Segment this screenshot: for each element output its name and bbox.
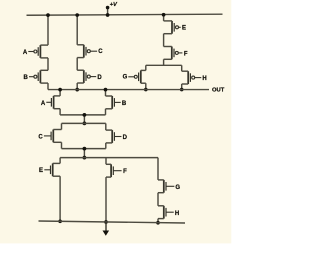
transistor E (NMOS) — [39, 163, 60, 176]
transistor E (PMOS) — [164, 21, 186, 34]
transistor B (PMOS) — [24, 70, 48, 83]
ground rail — [39, 221, 186, 223]
schematic background — [0, 0, 231, 243]
wire G to OUT — [145, 83, 147, 89]
wire D(n) top — [105, 123, 107, 130]
junction dot connector1 top — [83, 113, 87, 117]
junction dot rail/E column — [162, 13, 166, 17]
wire D(n) bottom — [105, 143, 107, 149]
wire C to D — [76, 58, 78, 71]
wire rail to E — [163, 15, 165, 21]
transistor G (NMOS) — [158, 180, 180, 193]
junction dot E(n)/rail — [58, 219, 62, 223]
wire F(n) to ground rail — [105, 177, 107, 222]
transistor D (PMOS) — [77, 70, 102, 83]
transistor F (PMOS) — [164, 47, 188, 60]
node OUT line — [48, 89, 209, 91]
wire A/B pair to C/D pair — [83, 115, 85, 124]
svg-text:H: H — [202, 76, 206, 82]
junction dot rail/A column — [46, 13, 50, 17]
junction dot connector1 bottom — [83, 122, 87, 126]
wire C(n) top — [61, 123, 63, 129]
node line C/D pair top — [62, 122, 106, 124]
wire A to B — [47, 58, 49, 70]
wire E(n) to ground rail — [59, 176, 61, 221]
svg-text:A: A — [23, 50, 28, 56]
+V stub — [107, 8, 109, 16]
wire E(n) top — [59, 158, 61, 164]
svg-text:OUT: OUT — [212, 88, 225, 94]
svg-text:C: C — [38, 134, 43, 140]
node line A/B pair bottom — [60, 114, 105, 116]
svg-text:B: B — [122, 101, 127, 107]
wire C(n) bottom — [61, 142, 63, 148]
junction dot connector2 top — [83, 147, 87, 151]
junction dot A(n)/OUT — [58, 88, 62, 92]
wire rail to A — [47, 15, 49, 45]
transistor B (NMOS) — [106, 96, 127, 109]
wire H(n) to ground rail — [157, 219, 159, 223]
svg-text:D: D — [123, 135, 128, 141]
transistor D (NMOS) — [106, 130, 128, 143]
wire OUT to A(n) — [59, 90, 61, 96]
wire OUT to B(n) — [105, 90, 107, 96]
wire F to G/H top line — [163, 59, 165, 65]
wire rail to C — [76, 15, 78, 45]
transistor C (NMOS) — [38, 130, 61, 143]
junction dot H(n)/rail — [156, 221, 160, 225]
svg-text:D: D — [97, 75, 102, 81]
transistor G (PMOS) — [123, 70, 146, 83]
svg-text:F: F — [123, 169, 127, 175]
junction dot +V on rail — [106, 13, 110, 17]
svg-text:H: H — [175, 211, 179, 217]
transistor F (NMOS) — [106, 164, 127, 177]
junction dot D/OUT — [75, 88, 79, 92]
svg-text:A: A — [41, 101, 46, 107]
svg-text:B: B — [24, 75, 29, 81]
wire D to OUT line — [76, 83, 78, 90]
transistor A (PMOS) — [23, 45, 48, 58]
transistor H (PMOS) — [182, 71, 207, 84]
node line E/F pair top — [60, 157, 158, 159]
transistor C (PMOS) — [77, 45, 103, 58]
wire E to F — [163, 34, 165, 47]
junction dot rail/C column — [75, 13, 79, 17]
junction dot connector2 bottom — [83, 156, 87, 160]
svg-text:+V: +V — [110, 2, 118, 8]
ground arrowhead — [103, 231, 110, 236]
wire B to OUT line — [47, 83, 49, 89]
wire B(n) bottom — [105, 109, 107, 115]
svg-text:G: G — [123, 75, 128, 81]
wire E/F top line down to G(n) — [157, 158, 159, 180]
node line C/D pair bottom — [62, 148, 106, 150]
svg-text:F: F — [184, 51, 188, 57]
node +V dot top — [106, 6, 110, 10]
wire H top — [181, 65, 183, 71]
wire A(n) bottom — [59, 109, 61, 115]
svg-text:G: G — [175, 185, 180, 191]
wire H to OUT — [181, 84, 183, 90]
svg-text:C: C — [98, 49, 103, 55]
+V supply rail — [27, 14, 223, 15]
transistor A (NMOS) — [41, 96, 60, 109]
transistor H (NMOS) — [158, 206, 179, 219]
ground arrow stem — [105, 222, 107, 231]
node line G/H top — [146, 64, 182, 66]
junction dot G/OUT — [144, 88, 148, 92]
svg-text:E: E — [39, 168, 43, 174]
wire F(n) top — [105, 158, 107, 165]
svg-text:E: E — [182, 25, 186, 31]
junction dot B(n)/OUT — [104, 88, 108, 92]
wire G(n) to H(n) — [157, 193, 159, 206]
wire C/D pair to E/F pair — [83, 149, 85, 158]
junction dot H/OUT — [180, 88, 184, 92]
wire G top — [145, 65, 147, 70]
junction dot F(n)/rail — [104, 220, 108, 224]
